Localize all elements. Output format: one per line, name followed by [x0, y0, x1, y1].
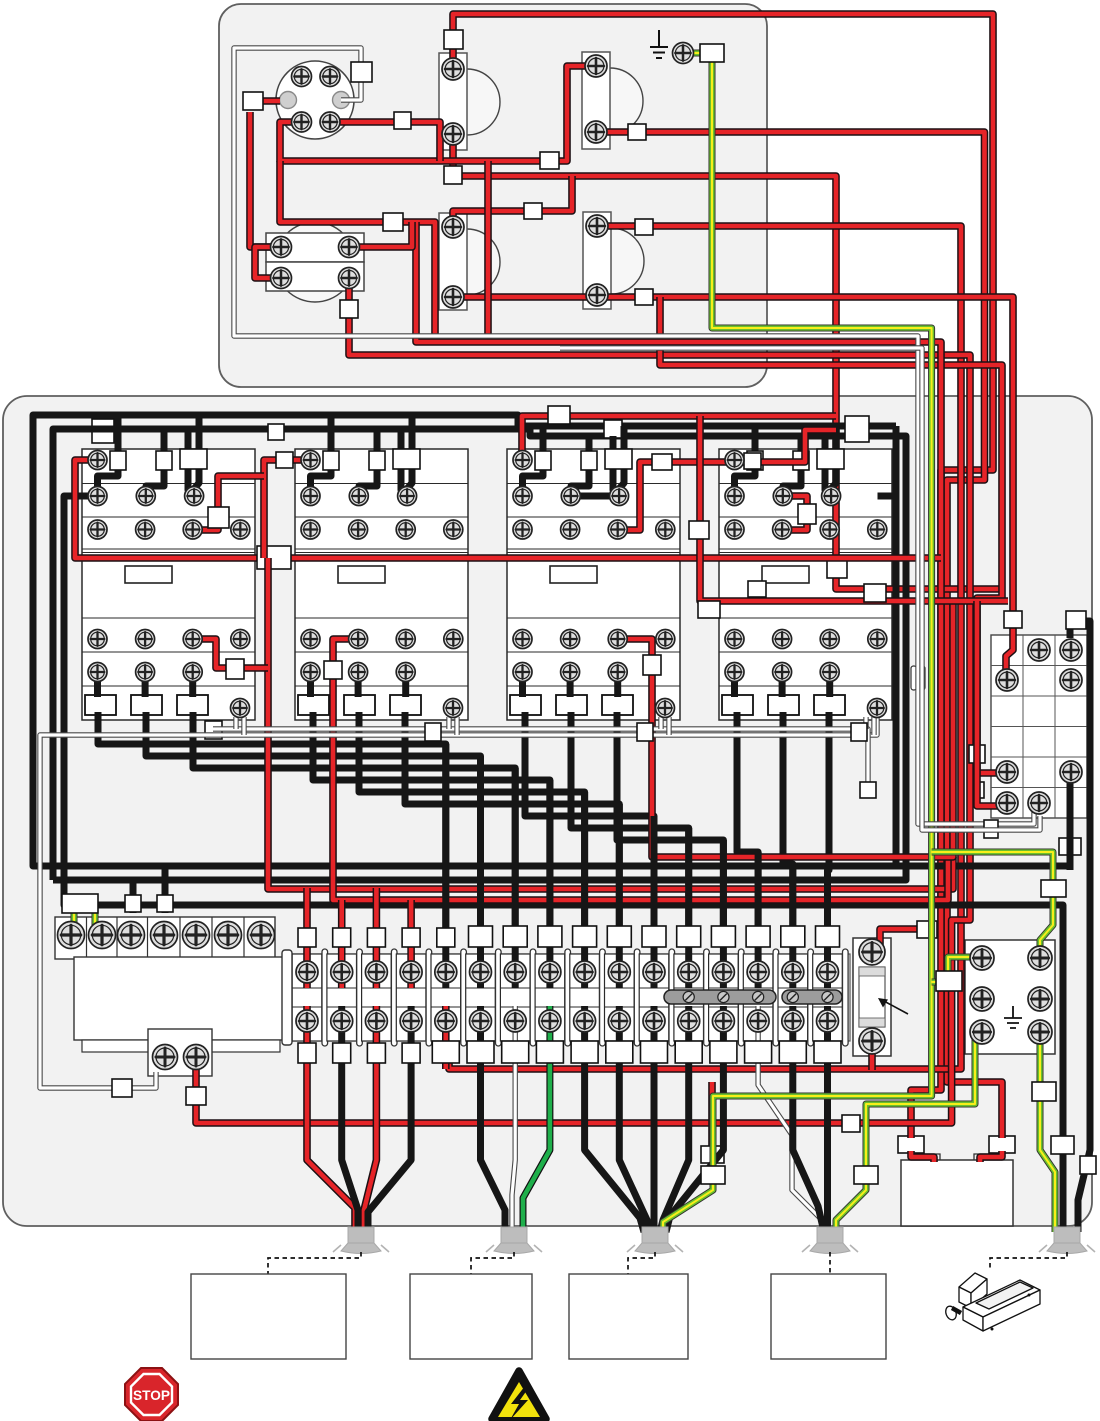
grid block screw	[1028, 639, 1050, 661]
contactor K3 screw r5c2	[561, 663, 580, 682]
wire yellow-green PE main	[663, 53, 932, 1232]
connector pin circle left	[280, 92, 297, 109]
contactor K3 screw r2c2	[561, 487, 580, 506]
contactor K3 screw r4c1	[513, 630, 532, 649]
jumper screw	[753, 991, 764, 1002]
wire red transformer hook R	[980, 1151, 1002, 1162]
wire black drop col3a	[188, 429, 193, 496]
left strip screw 7	[248, 922, 275, 949]
terminal module 5	[431, 954, 461, 1041]
wire black term9 bottom	[585, 1006, 644, 1232]
motor block screw 2	[339, 237, 360, 258]
ferrule terminal 15 bottom	[779, 1041, 806, 1063]
contactor K2 screw r3c4	[444, 520, 463, 539]
wire red term2 top	[338, 900, 346, 988]
contactor K3 body	[507, 449, 680, 720]
wire red term5 bottom	[442, 1006, 450, 1069]
jumper screw	[822, 991, 833, 1002]
wire black term2 bottom	[342, 1006, 358, 1232]
contactor K3 screw bottom aux	[656, 699, 675, 718]
dashed lead to connector	[990, 1252, 1067, 1268]
contactor K2 clamp 2	[344, 695, 375, 715]
contactor K3 screw r3c2	[561, 520, 580, 539]
terminal module 13 divider	[738, 949, 744, 1046]
terminal 1 screw top	[296, 961, 318, 983]
contactor K4 clamp 2	[768, 695, 799, 715]
terminal module 6	[466, 954, 496, 1041]
ferrule	[845, 416, 869, 442]
wire red bus K1-top	[75, 460, 941, 558]
ferrule terminal 2 bottom	[333, 1043, 351, 1063]
contactor K1 screw r3c1	[88, 520, 107, 539]
contactor K3 screw r3c3	[608, 520, 627, 539]
fuse holder body	[853, 938, 891, 1056]
contactor K2 clamp 3	[390, 695, 421, 715]
wire yellow-green stub strip1	[71, 912, 78, 930]
ferrule	[226, 659, 244, 679]
contactor K3 screw r2c1	[513, 487, 532, 506]
wire black row5 stub	[94, 672, 101, 697]
wire black term5 top	[442, 744, 449, 988]
contactor K4 screw r4c3	[820, 630, 839, 649]
terminal 9 screw bottom	[574, 1010, 596, 1032]
grid block screw	[1028, 792, 1050, 814]
wire red motor-block to bus	[349, 222, 412, 247]
terminal 11 screw top	[643, 961, 665, 983]
contactor K2 label plate	[338, 566, 385, 583]
wire red K4 row3 hook	[782, 496, 807, 530]
wire red term1 bottom	[307, 1006, 355, 1232]
left terminal strip body	[55, 917, 275, 959]
motor block terminals upper	[266, 233, 364, 262]
terminal 5 screw top	[435, 961, 457, 983]
wire black clamp exit	[193, 712, 515, 929]
wire yellow-green branch block right	[932, 852, 1053, 952]
ground screw top panel	[673, 43, 694, 64]
ferrule	[793, 451, 809, 470]
terminal module 7 divider	[530, 949, 536, 1046]
svg-text:STOP: STOP	[133, 1387, 170, 1403]
ferrule terminal 12 bottom	[675, 1041, 702, 1063]
wire black clamp exit k4-3	[828, 712, 830, 929]
wire red L4 coilD-top to lower red bus	[449, 226, 961, 1069]
grid terminal block	[991, 635, 1087, 818]
wire red coilC-top link	[453, 176, 572, 227]
terminal module 8 divider	[565, 949, 571, 1046]
ferrule terminal 2 top	[333, 928, 351, 947]
wire black bus loop2	[53, 429, 906, 880]
wire black term4 bottom	[368, 1006, 411, 1232]
terminal 7 screw top	[504, 961, 526, 983]
ferrule	[257, 546, 291, 569]
ferrule terminal 4 top	[402, 928, 420, 947]
ferrule terminal 11 top	[642, 926, 666, 947]
terminal module 1 divider	[322, 949, 328, 1046]
terminal 11 screw bottom	[643, 1010, 665, 1032]
wire black clamp exit	[737, 712, 758, 929]
ferrule terminal 11 bottom	[641, 1041, 668, 1063]
wire black drop col1	[523, 426, 544, 490]
coil D screw top	[586, 215, 608, 237]
ferrule terminal 5 bottom	[432, 1041, 459, 1063]
relay base body	[74, 957, 288, 1040]
contactor K4 screw r4c2	[773, 630, 792, 649]
wire black clamp exit	[359, 712, 585, 929]
wire white stub a	[233, 717, 238, 729]
ferrule	[605, 449, 632, 469]
ground terminal block	[965, 940, 1055, 1054]
ferrule	[186, 1087, 206, 1105]
wire black term13 top	[720, 840, 727, 988]
terminal 2 screw top	[331, 961, 353, 983]
terminal 15 screw top	[782, 961, 804, 983]
wire yellow-green PE block to gland4	[836, 1038, 975, 1232]
cable gland	[486, 1227, 542, 1254]
ferrule	[864, 584, 886, 602]
contactor K4 screw r5c1	[725, 663, 744, 682]
contactor K3 screw r5c1	[513, 663, 532, 682]
aux 2-screw block	[148, 1029, 212, 1076]
ferrule	[535, 451, 551, 470]
wire white second loop	[560, 348, 1040, 830]
left strip screw 5	[183, 922, 210, 949]
STOP sign	[125, 1368, 178, 1421]
wire red clamp feeder	[911, 589, 941, 1138]
ferrule	[1080, 1156, 1096, 1174]
wire black K3 row2 link	[571, 493, 618, 500]
ferrule	[1032, 1082, 1056, 1101]
ground block screw	[970, 946, 994, 970]
cable gland	[802, 1227, 858, 1254]
ferrule	[243, 92, 263, 110]
terminal 2 screw bottom	[331, 1010, 353, 1032]
wire black clamp exit	[617, 712, 723, 929]
ferrule	[444, 30, 463, 49]
contactor K4 screw r3c2	[773, 520, 792, 539]
wire red K2 feed	[264, 460, 311, 558]
wire black drop col3b	[406, 415, 412, 490]
ferrule	[1059, 838, 1081, 855]
terminal 3 screw top	[365, 961, 387, 983]
contactor K3 clamp 1	[510, 695, 541, 715]
wire black bus loop1	[33, 415, 1070, 866]
terminal module 2 divider	[357, 949, 363, 1046]
contactor K3 clamp 3	[602, 695, 633, 715]
ferrule terminal 10 bottom	[606, 1041, 633, 1063]
connector screw 2	[320, 67, 340, 87]
wire black row5 stub	[355, 672, 362, 697]
ferrule terminal 12 top	[677, 926, 701, 947]
terminal 16 screw bottom	[817, 1010, 839, 1032]
wire red term3 top	[373, 888, 381, 988]
terminal module 10	[605, 954, 635, 1041]
contactor K4 screw r3c3	[820, 520, 839, 539]
wire black drop col3a	[825, 436, 830, 496]
terminal module 2	[327, 954, 357, 1041]
solenoid coil C bulge	[467, 229, 500, 295]
solenoid coil A body	[439, 53, 467, 150]
wire red K3 riser	[618, 601, 953, 857]
terminal 8 screw bottom	[539, 1010, 561, 1032]
grid block screw	[1060, 639, 1082, 661]
contactor K1 body	[82, 449, 255, 720]
wire red K2 riser to bus B	[333, 639, 948, 900]
ferrule	[62, 894, 98, 913]
ferrule terminal 1 bottom	[298, 1043, 316, 1063]
terminal 6 screw top	[470, 961, 492, 983]
contactor K3 screw r4c2	[561, 630, 580, 649]
wire red lower bus branch	[280, 161, 435, 342]
terminal module 14	[743, 954, 773, 1041]
contactor K1 screw r4c4	[231, 630, 250, 649]
connector screw 1	[292, 67, 312, 87]
contactor K2 screw r3c2	[349, 520, 368, 539]
ferrule	[635, 289, 653, 305]
contactor K2 screw r4c1	[301, 630, 320, 649]
wire black row5 stub	[402, 672, 409, 697]
ferrule	[208, 507, 229, 528]
terminal module 3 divider	[391, 949, 397, 1046]
wire black drop col2	[146, 429, 164, 492]
terminal 13 screw top	[712, 961, 734, 983]
wire black row5 stub	[731, 672, 738, 697]
wire white bus lower	[40, 717, 877, 1088]
ferrule	[157, 895, 173, 912]
contactor K3 screw r2c3	[610, 487, 629, 506]
contactor K2 body	[295, 449, 468, 720]
left strip screw 6	[215, 922, 242, 949]
contactor K3 screw A1	[513, 451, 532, 470]
contactor K2 screw r4c4	[444, 630, 463, 649]
ferrule	[643, 655, 661, 675]
wire white stub a	[658, 717, 663, 729]
wire black term7 top	[512, 768, 519, 988]
contactor K1 screw r2c2	[136, 487, 155, 506]
terminal module 4 divider	[426, 949, 432, 1046]
solenoid coil A bulge	[467, 69, 500, 135]
wire black row5 stub	[142, 672, 149, 697]
contactor K3 clamp 2	[556, 695, 587, 715]
contactor K1 label plate	[125, 566, 172, 583]
ferrule	[698, 601, 720, 618]
ferrule	[635, 219, 653, 235]
ferrule	[628, 124, 646, 140]
ferrule	[652, 454, 672, 470]
contactor K3 screw r5c3	[608, 663, 627, 682]
ferrule	[854, 1166, 878, 1184]
terminal 12 screw top	[678, 961, 700, 983]
wire red L3 coilA-bottom to transformer clamp left	[453, 134, 1002, 589]
jumper bar 1	[664, 990, 776, 1004]
wire red L2 coilB-bottom to transformer clamp right	[596, 132, 1002, 1138]
ground block screw	[1028, 987, 1052, 1011]
terminal module 14 divider	[773, 949, 779, 1046]
ferrule terminal 10 top	[607, 926, 631, 947]
coil A screw bottom	[442, 123, 464, 145]
coil A screw top	[442, 58, 464, 80]
contactor K1 screw r2c3	[185, 487, 204, 506]
wire green term8 bottom	[523, 1006, 550, 1232]
contactor K4 label plate	[762, 566, 809, 583]
contactor K4 screw r4c1	[725, 630, 744, 649]
jumper screw	[718, 991, 729, 1002]
terminal module 15 divider	[808, 949, 814, 1046]
ferrule	[842, 1115, 860, 1132]
contactor K1 screw bottom aux	[231, 699, 250, 718]
wire black clamp exit	[571, 712, 689, 929]
grid block screw	[1060, 761, 1082, 783]
ground block screw	[1028, 1020, 1052, 1044]
ferrule terminal 1 top	[298, 928, 316, 947]
main panel enclosure	[3, 396, 1092, 1226]
wire black loop1 right	[893, 426, 900, 866]
ground block screw	[970, 987, 994, 1011]
terminal module 7	[500, 954, 530, 1041]
ferrule terminal 16 bottom	[814, 1041, 841, 1063]
coil C screw top	[442, 216, 464, 238]
ferrule	[744, 453, 761, 469]
jumper bar 2	[782, 990, 842, 1004]
contactor K2 screw r5c2	[349, 663, 368, 682]
wire white stub a	[863, 717, 868, 729]
ferrule terminal 3 bottom	[367, 1043, 385, 1063]
terminal 9 screw top	[574, 961, 596, 983]
contactor K4 body	[719, 449, 892, 720]
ferrule	[393, 449, 420, 469]
ferrule	[268, 424, 284, 440]
warning triangle	[492, 1371, 546, 1420]
terminal 14 screw bottom	[747, 1010, 769, 1032]
wire white stub b	[871, 717, 876, 735]
wire red bus K3-top	[522, 416, 836, 461]
terminal module 5 divider	[461, 949, 467, 1046]
wire white stub a	[446, 717, 451, 729]
ferrule	[110, 451, 126, 470]
wire black K4 row2 link	[878, 493, 897, 500]
coil D screw bottom	[586, 284, 608, 306]
ferrule	[394, 112, 411, 129]
contactor K2 screw r4c3	[396, 630, 415, 649]
terminal module 10 divider	[634, 949, 640, 1046]
contactor K4 clamp 3	[814, 695, 845, 715]
wire red L7 coilD-bottom to grid block row5	[660, 297, 1002, 773]
ferrule terminal 6 top	[469, 926, 493, 947]
ferrule	[324, 661, 342, 679]
terminal module 9 divider	[600, 949, 606, 1046]
motor block bottom-left circle	[275, 222, 355, 302]
coil B screw top	[585, 55, 607, 77]
wire black term15 bottom	[793, 1006, 824, 1232]
wire black term12 bottom	[660, 1006, 689, 1232]
wire red L6 motor block to terminal aux bus	[196, 278, 970, 1123]
terminal 10 screw bottom	[608, 1010, 630, 1032]
ferrule terminal 14 bottom	[745, 1041, 772, 1063]
wire black term8 top	[546, 780, 553, 988]
contactor K1 screw r4c2	[136, 630, 155, 649]
left strip screw 4	[151, 922, 178, 949]
terminal 6 screw bottom	[470, 1010, 492, 1032]
terminal module 8	[535, 954, 565, 1041]
terminal module 4	[396, 954, 426, 1041]
wire red aux drop	[708, 1082, 716, 1162]
ferrule terminal 13 top	[711, 926, 735, 947]
contactor K2 screw r2c3	[398, 487, 417, 506]
contactor K2 screw r3c1	[301, 520, 320, 539]
left strip screw 3	[118, 922, 145, 949]
terminal module 16 divider	[843, 949, 849, 1046]
wire black strip stub2	[162, 866, 169, 913]
wire black drop col3b	[193, 415, 199, 490]
wire red connector feed	[263, 97, 280, 105]
contactor K3 screw r4c4	[656, 630, 675, 649]
ferrule terminal 14 top	[746, 926, 770, 947]
ferrule terminal 16 top	[816, 926, 840, 947]
terminal module 6 divider	[496, 949, 502, 1046]
wire black row5 stub	[307, 672, 314, 697]
wire black clamp exit	[525, 712, 654, 929]
contactor K1 screw r4c3	[183, 630, 202, 649]
transformer clamp right	[989, 1136, 1015, 1153]
terminal 5 screw bottom	[435, 1010, 457, 1032]
wire black drop col3a	[401, 429, 406, 496]
aux block screw 2	[184, 1045, 209, 1070]
aux block screw 1	[153, 1045, 178, 1070]
ground block screw	[1028, 946, 1052, 970]
solenoid coil B bulge	[610, 68, 643, 134]
contactor K1 screw r5c3	[183, 663, 202, 682]
wire black drop col2	[359, 429, 377, 492]
wire red K1 row3 hook	[193, 476, 264, 530]
left strip screw 1	[58, 922, 85, 949]
ferrule	[205, 721, 222, 739]
main terminal strip rail	[290, 954, 850, 1041]
contactor K4 clamp 1	[722, 695, 753, 715]
ferrule	[524, 203, 542, 219]
contactor K4 screw A1	[725, 451, 744, 470]
ferrule	[1066, 611, 1086, 629]
ferrule	[276, 452, 293, 468]
dashed lead to box3	[628, 1252, 655, 1274]
ferrule	[701, 1166, 725, 1184]
terminal module 13	[709, 954, 739, 1041]
connector screw 4	[320, 112, 340, 132]
ferrule	[969, 782, 984, 798]
contactor K4 screw r2c2	[773, 487, 792, 506]
terminal module 1	[292, 954, 322, 1041]
ferrule	[604, 420, 622, 438]
ferrule	[637, 723, 653, 741]
ferrule terminal 7 top	[503, 926, 527, 947]
wire black term16 top	[824, 870, 831, 988]
transformer body	[901, 1160, 1013, 1226]
ferrule	[156, 451, 172, 470]
ferrule	[689, 521, 709, 539]
wire red K4 pair	[700, 416, 1008, 601]
terminal module 16	[813, 954, 843, 1041]
contactor K4 screw r4c4	[868, 630, 887, 649]
wire red K4 feed	[735, 430, 837, 462]
contactor K2 screw bottom aux	[444, 699, 463, 718]
solenoid coil B body	[582, 52, 610, 149]
grid block screw	[996, 669, 1018, 691]
ferrule	[700, 44, 724, 62]
ferrule	[936, 971, 962, 991]
transformer clamp left	[898, 1136, 924, 1153]
ferrule terminal 4 bottom	[402, 1043, 420, 1063]
wire black term10 top	[616, 804, 623, 988]
motor block screw 1	[271, 237, 292, 258]
ferrule	[984, 820, 998, 838]
